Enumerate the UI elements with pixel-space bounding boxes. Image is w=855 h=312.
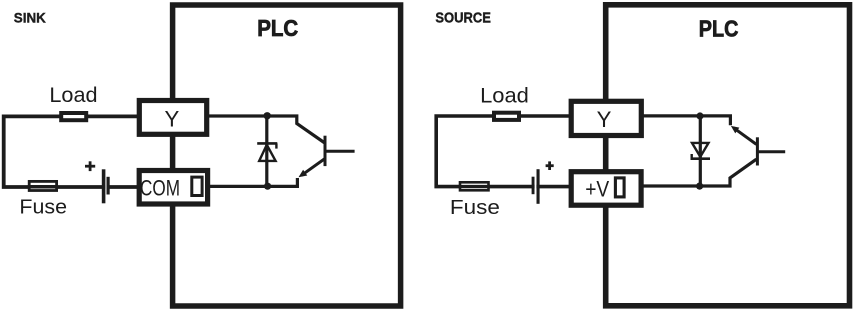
svg-text:+V: +V: [585, 176, 609, 201]
svg-text:Fuse: Fuse: [450, 196, 500, 219]
svg-text:Y: Y: [165, 106, 180, 131]
svg-text:Fuse: Fuse: [19, 196, 67, 219]
svg-text:Y: Y: [597, 107, 612, 132]
svg-text:PLC: PLC: [699, 15, 739, 41]
svg-text:SOURCE: SOURCE: [435, 10, 491, 26]
svg-text:Load: Load: [49, 83, 97, 107]
svg-text:Load: Load: [480, 84, 529, 108]
svg-text:PLC: PLC: [257, 15, 298, 41]
svg-text:SINK: SINK: [14, 10, 47, 26]
svg-text:COM: COM: [140, 175, 180, 200]
